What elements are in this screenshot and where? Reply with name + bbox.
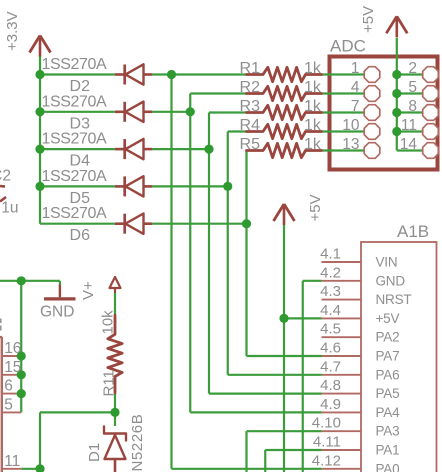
svg-text:D1: D1 bbox=[86, 443, 103, 462]
svg-text:1SS270A: 1SS270A bbox=[42, 168, 108, 185]
svg-text:PA0: PA0 bbox=[376, 461, 400, 472]
svg-text:4.11: 4.11 bbox=[313, 434, 341, 451]
svg-text:4.8: 4.8 bbox=[320, 377, 341, 394]
svg-text:4.3: 4.3 bbox=[320, 283, 341, 300]
svg-text:V+: V+ bbox=[80, 281, 97, 300]
svg-text:4.7: 4.7 bbox=[320, 358, 341, 375]
svg-text:11: 11 bbox=[401, 117, 417, 134]
svg-text:+3.3V: +3.3V bbox=[4, 11, 21, 51]
svg-text:1SS270A: 1SS270A bbox=[42, 93, 108, 110]
svg-text:NRST: NRST bbox=[376, 292, 412, 307]
svg-text:R3: R3 bbox=[240, 98, 261, 115]
svg-text:PA5: PA5 bbox=[376, 386, 400, 401]
svg-text:8: 8 bbox=[408, 98, 417, 115]
svg-text:N5226B: N5226B bbox=[129, 414, 146, 472]
svg-text:C2: C2 bbox=[0, 168, 11, 185]
svg-text:PA4: PA4 bbox=[376, 405, 401, 420]
svg-text:R2: R2 bbox=[240, 79, 261, 96]
svg-text:10k: 10k bbox=[100, 310, 117, 335]
svg-text:4.6: 4.6 bbox=[320, 340, 341, 357]
svg-text:10: 10 bbox=[342, 117, 360, 134]
svg-text:5: 5 bbox=[4, 396, 13, 413]
svg-text:7: 7 bbox=[351, 98, 360, 115]
svg-text:4.12: 4.12 bbox=[312, 452, 341, 469]
svg-text:GND: GND bbox=[376, 273, 406, 288]
svg-text:1: 1 bbox=[351, 60, 360, 77]
svg-text:PA2: PA2 bbox=[376, 330, 400, 345]
svg-text:4.10: 4.10 bbox=[312, 415, 341, 432]
svg-text:D6: D6 bbox=[70, 227, 91, 244]
svg-text:1SS270A: 1SS270A bbox=[42, 205, 108, 222]
svg-text:2: 2 bbox=[408, 60, 417, 77]
svg-text:4.5: 4.5 bbox=[320, 321, 341, 338]
svg-text:GND: GND bbox=[40, 304, 74, 321]
svg-text:+5V: +5V bbox=[360, 6, 377, 33]
svg-text:16: 16 bbox=[4, 340, 21, 357]
svg-text:1k: 1k bbox=[304, 98, 322, 115]
svg-text:R11: R11 bbox=[101, 370, 118, 396]
svg-text:PA6: PA6 bbox=[376, 367, 400, 382]
svg-text:4.1: 4.1 bbox=[320, 246, 341, 263]
svg-text:.1u: .1u bbox=[0, 200, 19, 217]
svg-text:PA3: PA3 bbox=[376, 424, 400, 439]
svg-text:1SS270A: 1SS270A bbox=[42, 131, 108, 148]
svg-text:5: 5 bbox=[408, 79, 417, 96]
svg-text:1k: 1k bbox=[304, 60, 322, 77]
svg-text:ADC: ADC bbox=[330, 37, 366, 56]
svg-text:1k: 1k bbox=[304, 117, 322, 134]
svg-text:+5V: +5V bbox=[307, 194, 324, 221]
svg-text:A1B: A1B bbox=[397, 222, 429, 241]
svg-text:R1: R1 bbox=[240, 60, 261, 77]
svg-text:1SS270A: 1SS270A bbox=[42, 56, 108, 73]
svg-text:15: 15 bbox=[4, 359, 21, 376]
svg-text:13: 13 bbox=[342, 136, 359, 153]
svg-text:VIN: VIN bbox=[376, 255, 398, 270]
svg-text:11: 11 bbox=[4, 453, 20, 470]
svg-text:1k: 1k bbox=[304, 79, 322, 96]
svg-text:4.4: 4.4 bbox=[320, 302, 341, 319]
svg-text:1k: 1k bbox=[304, 136, 322, 153]
svg-text:4: 4 bbox=[351, 79, 360, 96]
svg-text:4.2: 4.2 bbox=[320, 264, 341, 281]
svg-text:4.9: 4.9 bbox=[320, 396, 341, 413]
svg-text:R5: R5 bbox=[240, 136, 261, 153]
svg-text:+5V: +5V bbox=[376, 311, 400, 326]
svg-text:PA1: PA1 bbox=[376, 443, 400, 458]
svg-text:R4: R4 bbox=[240, 117, 261, 134]
svg-text:14: 14 bbox=[400, 136, 418, 153]
svg-text:6: 6 bbox=[4, 378, 13, 395]
svg-text:PA7: PA7 bbox=[376, 349, 400, 364]
